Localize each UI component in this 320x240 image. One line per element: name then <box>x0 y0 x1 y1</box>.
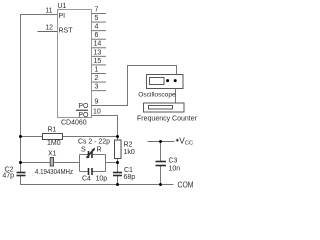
svg-text:C1: C1 <box>124 167 133 174</box>
svg-text:1M0: 1M0 <box>47 140 61 147</box>
svg-text:R: R <box>97 147 102 154</box>
svg-text:3: 3 <box>95 84 99 91</box>
svg-text:Cs 2 - 22p: Cs 2 - 22p <box>78 139 110 146</box>
svg-text:Oscilloscope: Oscilloscope <box>138 92 176 99</box>
trimmer Cs plates <box>88 151 90 158</box>
wire crystal node down to C2 <box>20 163 22 173</box>
pin 1 stub <box>92 72 107 74</box>
capacitor C3 plates <box>156 161 167 163</box>
wire R2 bottom to C1 <box>117 159 119 173</box>
pin 7 stub <box>92 13 107 15</box>
svg-text:2: 2 <box>95 75 99 82</box>
pin 4 stub <box>92 30 107 32</box>
wire R1 left <box>21 136 43 138</box>
svg-text:13: 13 <box>94 49 102 56</box>
resistor R2 <box>115 140 122 159</box>
wire crystal left <box>21 162 51 164</box>
trimmer Cs arrow <box>87 149 95 158</box>
wire cap box to R2 node <box>106 162 118 164</box>
pin 14 stub <box>92 47 107 49</box>
crystal X1 body <box>50 158 53 167</box>
wire C2 bottom to ground rail <box>21 176 174 185</box>
junction left crystal node <box>19 161 22 164</box>
pin 13 stub <box>92 55 107 57</box>
wire Vcc to C3 <box>160 142 162 162</box>
capacitor C4 bottom branch right <box>92 171 106 173</box>
wire left rail R1 node to crystal node <box>20 137 22 163</box>
junction C1 ground node <box>116 183 119 186</box>
frequency counter body <box>144 103 185 112</box>
svg-text:PO: PO <box>78 103 89 110</box>
wire C1 bottom to ground rail <box>117 176 119 185</box>
wire pin 11 to left rail <box>21 15 58 137</box>
svg-text:10: 10 <box>93 109 101 116</box>
junction Vcc C3 node <box>159 140 162 143</box>
svg-text:9: 9 <box>95 99 99 106</box>
svg-text:68p: 68p <box>124 174 136 181</box>
svg-text:14: 14 <box>94 41 102 48</box>
wire crystal to cap box <box>54 162 80 164</box>
svg-text:C4: C4 <box>82 176 91 183</box>
capacitor C1 plates <box>113 172 122 174</box>
svg-text:1k0: 1k0 <box>124 149 135 156</box>
svg-text:COM: COM <box>178 181 194 190</box>
trimmer Cs top branch left <box>80 154 89 156</box>
trimmer Cs top branch right <box>92 154 106 156</box>
svg-text:PO: PO <box>78 112 89 119</box>
svg-text:X1: X1 <box>48 151 57 158</box>
cap box right vertical <box>105 155 107 172</box>
svg-text:CD4060: CD4060 <box>61 120 87 127</box>
svg-text:5: 5 <box>95 15 99 22</box>
wire C3 to ground rail <box>160 166 162 185</box>
svg-text:12: 12 <box>45 25 53 32</box>
wire +Vcc rail <box>148 141 175 143</box>
frequency counter display slot <box>149 106 173 110</box>
oscilloscope knob 1 <box>166 79 169 82</box>
capacitor C4 plates <box>88 168 90 175</box>
pin 15 stub <box>92 64 107 66</box>
wire pin 10 down to R2 node <box>92 116 118 141</box>
svg-text:15: 15 <box>94 58 102 65</box>
svg-text:U1: U1 <box>58 3 67 10</box>
overline for PO inverted <box>76 109 88 111</box>
capacitor C2 plates <box>17 172 26 174</box>
pin 2 stub <box>92 81 107 83</box>
svg-text:1: 1 <box>95 66 99 73</box>
svg-text:PI: PI <box>59 13 66 20</box>
capacitor C4 bottom branch left <box>80 171 89 173</box>
svg-text:R1: R1 <box>48 127 57 134</box>
svg-text:10p: 10p <box>96 176 108 183</box>
svg-text:RST: RST <box>59 28 74 35</box>
IC U1 CD4060 body <box>58 10 92 118</box>
resistor R1 <box>43 134 63 140</box>
pin 12 stub <box>38 31 58 33</box>
wire R1 node to R2 vertical <box>63 136 118 138</box>
svg-text:S: S <box>81 147 86 154</box>
svg-text:4: 4 <box>95 24 99 31</box>
junction left R1 node <box>19 135 22 138</box>
svg-text:R2: R2 <box>124 142 133 149</box>
oscilloscope knob 2 <box>174 79 177 82</box>
junction R2 bottom node <box>116 161 119 164</box>
pin 5 stub <box>92 21 107 23</box>
wire oscilloscope to frequency counter <box>175 89 177 104</box>
svg-text:10n: 10n <box>169 165 181 172</box>
svg-text:C3: C3 <box>169 158 178 165</box>
svg-text:Frequency Counter: Frequency Counter <box>137 116 198 123</box>
junction C3 ground node <box>159 183 162 186</box>
oscilloscope display <box>150 78 165 85</box>
svg-text:4.194304MHz: 4.194304MHz <box>35 169 73 176</box>
svg-text:6: 6 <box>95 32 99 39</box>
svg-text:7: 7 <box>95 7 99 14</box>
oscilloscope body <box>147 75 184 89</box>
junction R2 top node <box>116 135 119 138</box>
plus sign of +Vcc <box>176 139 179 141</box>
trimmer Cs arrowhead <box>92 148 95 152</box>
wire pin 9 to oscilloscope <box>92 66 177 106</box>
pin 6 stub <box>92 38 107 40</box>
svg-text:11: 11 <box>45 8 52 15</box>
cap box left vertical <box>79 155 81 172</box>
pin 3 stub <box>92 90 107 92</box>
svg-text:47p: 47p <box>2 173 14 180</box>
